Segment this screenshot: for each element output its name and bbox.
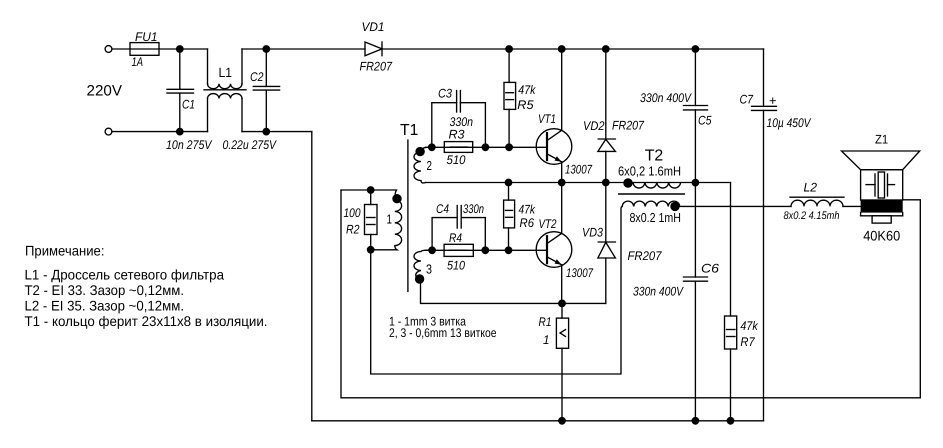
wire <box>112 48 130 50</box>
svg-text:0.22u 275V: 0.22u 275V <box>223 138 278 152</box>
svg-text:C1: C1 <box>182 98 195 112</box>
resistor R2 <box>365 190 378 250</box>
svg-text:330n 400V: 330n 400V <box>640 91 692 105</box>
svg-text:VD1: VD1 <box>362 20 385 34</box>
svg-text:VD3: VD3 <box>582 225 603 239</box>
svg-text:C2: C2 <box>250 70 264 84</box>
capacitor C2 <box>253 49 279 132</box>
wire bottom rail <box>312 420 764 422</box>
inductor L2 <box>790 197 861 206</box>
wire VT2 base line <box>425 249 547 251</box>
capacitor C6 <box>684 183 708 421</box>
wire output return loop <box>341 190 920 398</box>
transformer T2 primary winding <box>633 183 681 188</box>
svg-text:8x0.2 1mH: 8x0.2 1mH <box>630 210 682 225</box>
resistor R1 <box>556 303 568 420</box>
wire VT2 collector <box>561 183 563 234</box>
svg-text:330n 400V: 330n 400V <box>633 285 684 299</box>
svg-text:T1 - кольцо ферит 23х11х8 в из: T1 - кольцо ферит 23х11х8 в изоляции. <box>25 313 268 329</box>
node VT1-collector-top <box>558 45 566 53</box>
node VD2-top <box>602 45 610 53</box>
svg-text:R3: R3 <box>449 128 465 142</box>
wire bottom input rail right <box>242 131 312 133</box>
svg-text:Примечание:: Примечание: <box>25 243 105 259</box>
node R5-top <box>505 45 513 53</box>
node C3-right <box>482 143 490 151</box>
svg-text:VD2: VD2 <box>583 119 605 133</box>
T1 winding 2 <box>414 147 427 183</box>
inductor L1 common-mode choke <box>204 49 246 132</box>
input terminal top <box>105 46 112 53</box>
wire top rail <box>242 48 365 50</box>
svg-text:3: 3 <box>426 262 432 277</box>
wire left drop from input rail <box>311 132 313 421</box>
piezo tweeter Z1 <box>842 151 920 223</box>
svg-text:510: 510 <box>447 153 466 167</box>
svg-text:L1 - Дроссель сетевого фильтра: L1 - Дроссель сетевого фильтра <box>25 267 225 283</box>
wire R2-bottom to T2 secondary return <box>371 206 623 374</box>
svg-text:C6: C6 <box>701 261 719 275</box>
wire VT1 base line <box>426 146 548 148</box>
T1 winding 2 polarity dot <box>415 147 424 156</box>
node R7-bottom <box>727 417 735 425</box>
diode VD1 <box>365 42 382 56</box>
svg-text:47k: 47k <box>519 203 536 217</box>
svg-text:R7: R7 <box>740 335 755 349</box>
svg-text:FR207: FR207 <box>360 60 393 74</box>
svg-text:T2: T2 <box>645 147 664 164</box>
T2 secondary winding <box>622 201 680 206</box>
svg-text:C4: C4 <box>436 202 449 216</box>
transistor VT2 <box>536 232 572 268</box>
diode VD3 <box>598 183 616 304</box>
node C2-bottom <box>262 128 270 136</box>
svg-text:VT1: VT1 <box>538 112 556 126</box>
node R2-top <box>367 186 375 194</box>
wire bottom input rail <box>112 131 208 133</box>
node R6-top <box>505 179 513 187</box>
wire VT2 emitter <box>561 265 563 304</box>
svg-text:VT2: VT2 <box>539 217 557 231</box>
T1 winding 1 polarity dot <box>392 194 401 203</box>
capacitor C7 polarized <box>752 49 777 421</box>
svg-text:T2 - EI 33. Зазор ~0,12мм.: T2 - EI 33. Зазор ~0,12мм. <box>25 282 185 298</box>
wire VT1 emitter <box>561 162 563 183</box>
svg-text:+: + <box>769 93 777 108</box>
svg-text:R6: R6 <box>520 216 535 230</box>
transistor VT1 <box>536 129 572 165</box>
node VT2-emitter R1 <box>558 300 566 308</box>
svg-text:R4: R4 <box>449 231 462 245</box>
svg-text:40K60: 40K60 <box>863 228 900 244</box>
node C5-top <box>692 45 700 53</box>
T1 winding 1 <box>341 190 402 250</box>
svg-text:Z1: Z1 <box>875 132 888 146</box>
svg-text:R1: R1 <box>539 315 552 329</box>
fuse FU1 <box>130 43 159 56</box>
svg-text:8x0.2 4.15mh: 8x0.2 4.15mh <box>784 210 840 222</box>
svg-text:2: 2 <box>427 158 433 173</box>
svg-text:10µ 450V: 10µ 450V <box>767 116 812 130</box>
svg-text:R5: R5 <box>517 98 533 112</box>
resistor R5 <box>504 49 516 147</box>
svg-text:L1: L1 <box>219 65 233 80</box>
node R6-bottom <box>505 246 513 254</box>
capacitor C3 <box>432 91 486 148</box>
svg-text:R2: R2 <box>346 223 360 237</box>
node C1-top <box>176 45 184 53</box>
svg-text:T1: T1 <box>400 122 418 139</box>
T2 secondary polarity dot <box>670 202 679 211</box>
node R2-bottom <box>367 246 375 254</box>
svg-text:FR207: FR207 <box>612 119 645 133</box>
input terminal bottom <box>105 128 112 135</box>
capacitor C1 <box>167 49 194 132</box>
svg-text:L2 - EI 35. Зазор ~0,12мм.: L2 - EI 35. Зазор ~0,12мм. <box>25 298 185 314</box>
svg-text:220V: 220V <box>87 83 123 100</box>
svg-text:1: 1 <box>543 333 550 347</box>
T2 primary polarity dot <box>623 178 632 187</box>
node R5-bottom <box>505 143 513 151</box>
svg-text:13007: 13007 <box>566 266 594 280</box>
wire <box>159 48 208 50</box>
resistor R4 <box>444 244 473 256</box>
node half-bridge midpoint <box>558 179 566 187</box>
svg-text:1: 1 <box>387 212 393 227</box>
T1 winding 3 polarity dot <box>415 274 424 283</box>
node C2-top <box>262 45 270 53</box>
node C5-C6 junction <box>692 179 700 187</box>
transformer T1 core <box>407 140 409 291</box>
node C3-left <box>428 143 436 151</box>
node C6-bottom <box>692 417 700 425</box>
svg-text:100: 100 <box>344 206 361 220</box>
diode VD2 <box>598 49 616 183</box>
node C1-bottom <box>176 128 184 136</box>
resistor R7 <box>725 183 737 421</box>
T1 winding 3 <box>414 250 606 303</box>
svg-text:C3: C3 <box>438 87 452 101</box>
svg-text:1A: 1A <box>132 55 144 69</box>
wire secondary output <box>679 205 791 207</box>
resistor R3 <box>444 142 472 153</box>
node VD2-bottom <box>602 179 610 187</box>
node C4-left <box>428 246 436 254</box>
svg-text:C5: C5 <box>698 114 712 128</box>
svg-text:47k: 47k <box>740 319 758 333</box>
svg-text:10n 275V: 10n 275V <box>166 138 213 152</box>
svg-text:2, 3 - 0,6mm 13 виткое: 2, 3 - 0,6mm 13 виткое <box>389 326 497 340</box>
svg-text:47k: 47k <box>518 83 536 97</box>
svg-text:FU1: FU1 <box>135 30 158 44</box>
wire VT1 collector <box>561 49 563 130</box>
svg-text:L2: L2 <box>804 181 818 195</box>
capacitor C5 <box>684 49 708 183</box>
node R1-bottom <box>558 417 566 425</box>
svg-text:6x0,2 1.6mH: 6x0,2 1.6mH <box>618 164 681 179</box>
wire top rail to C7 corner <box>382 48 764 50</box>
resistor R6 <box>504 183 515 251</box>
node C4-right <box>481 246 489 254</box>
svg-text:13007: 13007 <box>565 162 593 176</box>
svg-text:FR207: FR207 <box>628 249 663 263</box>
svg-text:C7: C7 <box>740 93 754 107</box>
T2 core <box>619 193 685 195</box>
svg-text:330n: 330n <box>463 202 484 216</box>
svg-text:510: 510 <box>447 258 465 272</box>
wire mid rail <box>426 182 731 184</box>
capacitor C4 <box>432 206 485 251</box>
